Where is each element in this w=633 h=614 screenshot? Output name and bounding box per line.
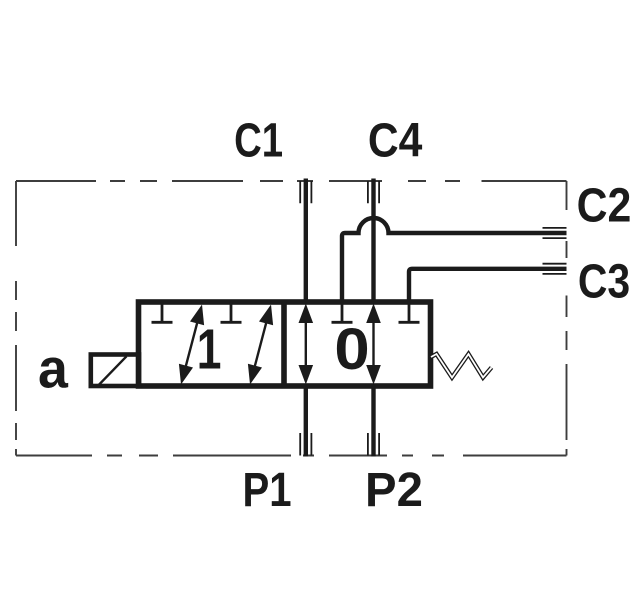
port marks C4 (368, 181, 379, 203)
enclosure dashed boundary left (15, 181, 17, 456)
enclosure dashed boundary bottom (16, 455, 567, 457)
svg-text:1: 1 (197, 318, 222, 382)
enclosure dashed boundary top (16, 180, 567, 182)
pipe P1 (304, 386, 308, 457)
solenoid diagonal (99, 356, 127, 385)
svg-text:C3: C3 (578, 255, 630, 308)
svg-text:P2: P2 (365, 464, 423, 517)
svg-text:C4: C4 (368, 115, 423, 168)
svg-text:C2: C2 (577, 179, 632, 232)
flow arrow position-0 right (366, 304, 381, 385)
port marks C3 (543, 264, 567, 274)
svg-text:C1: C1 (234, 115, 283, 168)
blocked port T left-2 (221, 302, 242, 322)
svg-text:P1: P1 (242, 464, 291, 517)
valve body outline (139, 302, 431, 386)
svg-text:0: 0 (334, 317, 369, 382)
blocked port T left-1 (152, 302, 173, 322)
valve position divider (281, 302, 287, 386)
pipe C4 (371, 179, 375, 303)
pipe C3 (409, 269, 567, 302)
solenoid a box (91, 355, 139, 387)
port marks P1 (300, 433, 311, 456)
flow arrow position-1 left (174, 303, 209, 387)
spring return (431, 354, 492, 378)
port marks C2 (543, 228, 567, 238)
flow arrow position-1 right (243, 303, 278, 387)
blocked port T right-1 (332, 302, 353, 322)
port marks P2 (368, 433, 379, 456)
blocked port T right-2 (399, 302, 420, 322)
pipe C1 (304, 179, 308, 303)
pipe P2 (371, 386, 375, 457)
svg-text:a: a (38, 337, 69, 400)
port marks C1 (300, 181, 311, 203)
pipe C2 with crossover hop (342, 218, 567, 302)
flow arrow position-0 left (299, 304, 314, 385)
enclosure dashed boundary right (566, 181, 568, 456)
